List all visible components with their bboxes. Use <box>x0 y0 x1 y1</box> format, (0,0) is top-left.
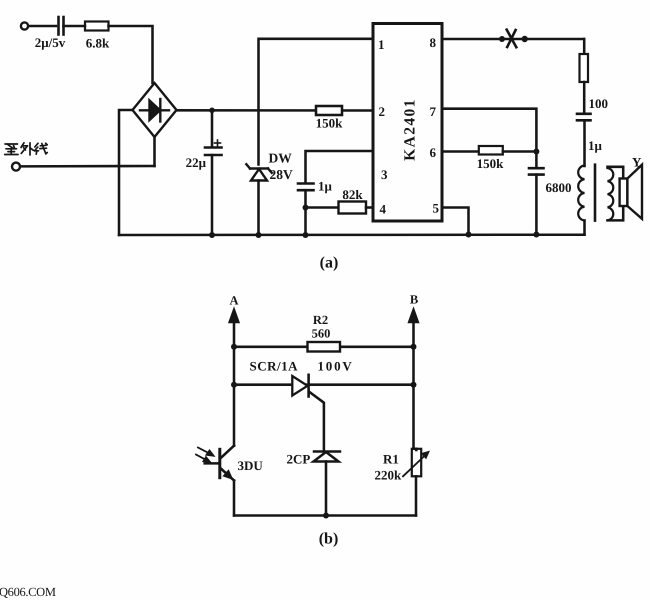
svg-text:B: B <box>410 293 418 307</box>
node <box>411 344 417 350</box>
svg-text:5: 5 <box>433 201 440 216</box>
transformer core <box>594 165 597 221</box>
capacitor 22u <box>211 110 214 147</box>
svg-text:82k: 82k <box>342 187 363 202</box>
svg-text:22μ: 22μ <box>186 155 207 170</box>
resistor R1 variable <box>412 449 421 477</box>
SCR gate wire <box>310 392 324 452</box>
svg-text:2: 2 <box>379 104 386 119</box>
node A arrow <box>229 309 239 323</box>
capacitor 1u (output) <box>577 114 591 121</box>
glyph wai <box>21 143 24 148</box>
wire <box>304 190 307 235</box>
node <box>231 382 237 388</box>
plus mark <box>215 140 221 146</box>
wire bridge bottom to line terminal <box>153 137 156 166</box>
wire pin6 <box>442 150 479 153</box>
svg-text:(a): (a) <box>320 255 339 272</box>
svg-text:220k: 220k <box>375 468 403 483</box>
svg-text:SCR/1A: SCR/1A <box>250 359 299 374</box>
wire pin5 <box>442 208 469 235</box>
base lead <box>205 462 219 465</box>
svg-text:150k: 150k <box>316 116 344 131</box>
wire left vertical b <box>233 347 236 446</box>
svg-text:R2: R2 <box>313 313 328 327</box>
wire R1 down <box>415 476 418 515</box>
svg-text:DW: DW <box>269 151 293 166</box>
wire <box>325 462 328 516</box>
resistor 6.8k <box>85 22 109 31</box>
capacitor 6800 <box>535 152 538 168</box>
node <box>323 513 329 519</box>
svg-text:R1: R1 <box>383 452 399 467</box>
wire <box>583 221 586 235</box>
svg-text:8: 8 <box>430 35 437 50</box>
wire bridge left to ground rail <box>119 110 133 235</box>
node <box>466 232 472 238</box>
svg-text:100: 100 <box>589 96 609 111</box>
label to-outside-line (zhi wai xian) drawn as strokes <box>5 143 48 155</box>
wire right vertical b <box>412 347 415 449</box>
zener diode DW 28V <box>246 164 271 180</box>
node <box>533 232 539 238</box>
node <box>209 232 215 238</box>
svg-text:3: 3 <box>381 167 388 182</box>
speaker Y <box>620 179 628 207</box>
glyph zhi <box>5 143 18 145</box>
svg-text:1μ: 1μ <box>588 138 603 153</box>
wire emitter down <box>233 481 236 516</box>
resistor 100 <box>580 54 589 82</box>
hook switch <box>499 36 505 42</box>
svg-text:28V: 28V <box>270 167 294 182</box>
wire pin8 to switch <box>442 38 584 41</box>
wire pin4 <box>306 206 339 209</box>
svg-text:(b): (b) <box>319 531 339 548</box>
capacitor 1u <box>298 184 314 191</box>
light arrows <box>196 448 214 463</box>
resistor 82k <box>339 202 367 214</box>
svg-text:KA2401: KA2401 <box>402 98 419 161</box>
node <box>231 344 237 350</box>
node <box>256 232 262 238</box>
ground rail circuit a <box>119 233 585 236</box>
svg-text:6800: 6800 <box>546 180 572 195</box>
glyph xian <box>35 143 38 147</box>
svg-text:150k: 150k <box>477 156 505 171</box>
wire pin1 to zener branch <box>259 39 374 165</box>
wire second line b <box>234 383 414 386</box>
terminal input top-left <box>21 22 28 29</box>
ground rail circuit b <box>234 514 416 516</box>
svg-text:Q606.COM: Q606.COM <box>0 585 56 599</box>
svg-text:2μ/5v: 2μ/5v <box>35 35 66 50</box>
transformer secondary coil <box>608 168 614 220</box>
wire <box>109 26 153 83</box>
terminal line 2 <box>12 163 20 171</box>
wire <box>503 150 537 153</box>
wire <box>583 82 586 113</box>
wire <box>366 206 373 209</box>
wire <box>583 120 586 166</box>
wire <box>211 155 214 235</box>
SCR thyristor <box>292 376 307 396</box>
node junction <box>209 108 215 114</box>
resistor 150k (pin2) <box>316 106 342 115</box>
node <box>303 205 309 211</box>
node <box>411 382 417 388</box>
capacitor C 2u/5v <box>59 17 64 35</box>
node B arrow <box>409 309 419 323</box>
transformer primary coil <box>578 166 584 221</box>
svg-text:560: 560 <box>312 327 331 341</box>
wire top line b <box>234 346 414 349</box>
node <box>303 232 309 238</box>
svg-text:2CP: 2CP <box>287 452 311 467</box>
resistor R2 <box>308 342 341 352</box>
phototransistor 3DU <box>218 449 221 477</box>
wire <box>535 175 538 235</box>
wire zener to rail <box>257 181 260 236</box>
resistor 150k (pin6) <box>479 146 503 155</box>
wire <box>29 25 57 28</box>
wire <box>21 165 155 168</box>
svg-text:6.8k: 6.8k <box>86 36 110 51</box>
IC U1 KA2401 <box>373 24 442 222</box>
bridge rectifier <box>133 83 177 137</box>
wire positive rail from bridge <box>177 109 374 112</box>
svg-text:4: 4 <box>380 202 387 217</box>
wire secondary to speaker <box>608 167 624 179</box>
svg-text:A: A <box>229 294 238 308</box>
wire <box>64 25 86 28</box>
wire pin3 to 1u cap <box>306 151 374 183</box>
diode 2CP <box>314 452 341 462</box>
svg-text:1: 1 <box>378 37 385 52</box>
svg-text:Y: Y <box>632 155 642 170</box>
svg-text:6: 6 <box>430 145 437 160</box>
node <box>533 149 539 155</box>
svg-text:7: 7 <box>430 104 437 119</box>
svg-text:1μ: 1μ <box>318 179 333 194</box>
wire down to resistor 100 <box>583 39 586 54</box>
svg-text:100V: 100V <box>318 359 354 374</box>
wire pin7 <box>442 109 536 152</box>
svg-text:3DU: 3DU <box>238 458 264 473</box>
